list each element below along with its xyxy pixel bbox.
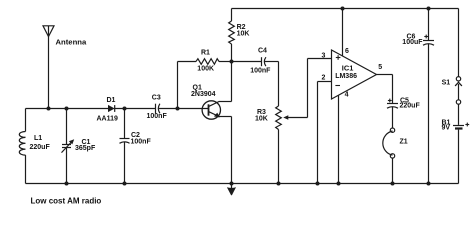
svg-text:C4: C4 bbox=[258, 48, 267, 55]
svg-text:220uF: 220uF bbox=[400, 103, 421, 110]
svg-text:4: 4 bbox=[345, 92, 349, 99]
svg-text:100nF: 100nF bbox=[147, 113, 168, 120]
svg-text:L1: L1 bbox=[34, 135, 42, 142]
svg-text:100K: 100K bbox=[197, 66, 214, 73]
svg-text:9V: 9V bbox=[442, 125, 451, 132]
svg-text:100uF: 100uF bbox=[402, 39, 423, 46]
svg-text:C3: C3 bbox=[152, 95, 161, 102]
svg-text:D1: D1 bbox=[107, 97, 116, 104]
svg-text:AA119: AA119 bbox=[97, 115, 119, 122]
svg-text:R1: R1 bbox=[201, 50, 210, 57]
svg-text:10K: 10K bbox=[237, 30, 250, 37]
svg-text:2: 2 bbox=[322, 74, 326, 81]
svg-text:2N3904: 2N3904 bbox=[191, 91, 216, 98]
svg-text:Z1: Z1 bbox=[400, 138, 408, 145]
svg-text:Antenna: Antenna bbox=[56, 37, 87, 46]
svg-text:5: 5 bbox=[378, 64, 382, 71]
svg-text:LM386: LM386 bbox=[335, 73, 357, 80]
svg-text:S1: S1 bbox=[442, 80, 451, 87]
svg-text:220uF: 220uF bbox=[30, 144, 51, 151]
svg-text:100nF: 100nF bbox=[131, 138, 152, 145]
svg-text:6: 6 bbox=[345, 48, 349, 55]
svg-text:Low cost AM radio: Low cost AM radio bbox=[31, 196, 102, 205]
svg-text:3: 3 bbox=[322, 53, 326, 60]
svg-text:100nF: 100nF bbox=[250, 68, 271, 75]
svg-text:365pF: 365pF bbox=[75, 145, 96, 152]
svg-text:10K: 10K bbox=[255, 116, 268, 123]
svg-text:IC1: IC1 bbox=[342, 64, 354, 73]
